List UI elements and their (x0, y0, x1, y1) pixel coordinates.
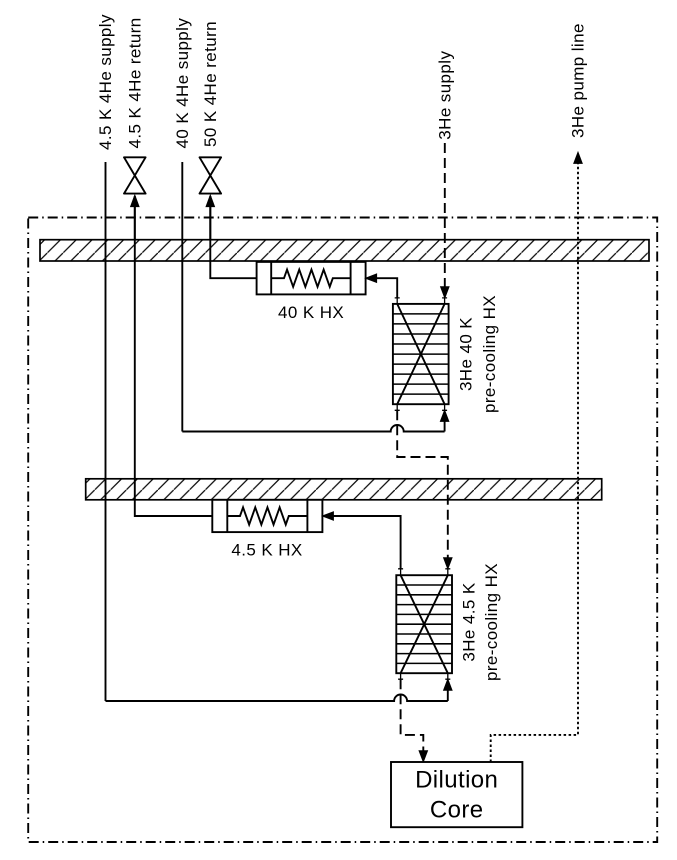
40 K HX (heat exchanger on 40 K plate) (257, 262, 366, 295)
svg-text:pre-cooling HX: pre-cooling HX (480, 295, 499, 413)
wire: from 3He 4.5 K pre-cooling HX top into 4.5 K HX (333, 516, 400, 569)
svg-text:4.5 K 4He supply: 4.5 K 4He supply (96, 14, 115, 150)
wire: lower loop horizontal with hop over 3He line (106, 695, 448, 701)
3He 4.5 K pre-cooling HX (counterflow HX) (396, 569, 452, 679)
svg-text:4.5 K 4He return: 4.5 K 4He return (125, 17, 144, 148)
svg-text:3He supply: 3He supply (435, 51, 454, 140)
valve V2 (50 K 4He return) (200, 157, 222, 193)
cryostat boundary (dash-dot border) (28, 218, 657, 843)
svg-text:Dilution: Dilution (415, 767, 498, 794)
arrow into valve V2 (209, 205, 211, 240)
svg-text:3He pump line: 3He pump line (569, 23, 588, 138)
svg-text:40 K 4He supply: 40 K 4He supply (173, 18, 192, 149)
svg-text:40 K HX: 40 K HX (278, 303, 344, 322)
3He dashed jog between pre-cooling HXs (397, 410, 448, 557)
wire: 40 K 4He supply down to upper loop (181, 162, 183, 432)
4.5 K HX (heat exchanger on 4.5 K plate) (212, 500, 322, 532)
wire: up into 3He 4.5 K pre-cooling HX bottom right (447, 690, 449, 702)
3He supply dashed line into pre-cooling HX 1 (444, 143, 446, 287)
wire: 4.5 K 4He return from valve down to 4.5 K HX (135, 196, 213, 516)
arrow into valve V1 (134, 205, 136, 240)
svg-text:Core: Core (430, 797, 484, 824)
4.5 K plate (hatched bar) (86, 479, 602, 500)
3He dashed jog into dilution core (401, 679, 424, 750)
3He 40 K pre-cooling HX (counterflow HX) (393, 298, 449, 410)
wire: upper loop horizontal with hop over 3He line (182, 425, 444, 431)
svg-text:4.5 K HX: 4.5 K HX (231, 540, 302, 559)
40 K plate (hatched bar) (40, 240, 649, 261)
svg-text:pre-cooling HX: pre-cooling HX (482, 563, 501, 681)
wire: 50 K 4He return from valve down to 40 K HX (210, 196, 256, 278)
wire: up into 3He 40 K pre-cooling HX bottom right (444, 421, 446, 432)
3He pump line (dotted) from dilution core up and out (491, 164, 578, 763)
dilution core box (391, 762, 522, 827)
svg-text:50 K 4He return: 50 K 4He return (201, 21, 220, 147)
valve V1 (4.5 K 4He return) (124, 157, 146, 193)
wire: from 3He 40 K pre-cooling HX top into 40 K HX (376, 278, 397, 298)
wire: 4.5 K 4He supply line down to lower loop (105, 162, 107, 701)
svg-text:3He 40 K: 3He 40 K (457, 317, 476, 391)
svg-text:3He 4.5 K: 3He 4.5 K (460, 582, 479, 661)
